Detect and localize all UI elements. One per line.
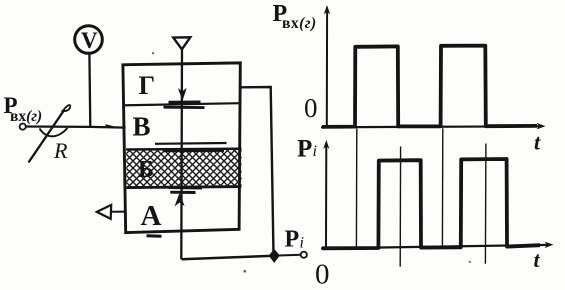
chart2 x-axis [321, 242, 554, 249]
wire central vertical [180, 49, 183, 259]
chart1 label Pвх(г) [273, 1, 317, 32]
wire right feedback [240, 87, 273, 255]
wire voltmeter lead [88, 54, 91, 127]
label Pi output [285, 227, 304, 253]
svg-text:вх(г): вх(г) [10, 108, 42, 125]
device box [123, 63, 240, 233]
node input terminal [20, 124, 26, 130]
wire output [279, 254, 301, 257]
svg-text:вх(г): вх(г) [282, 15, 317, 32]
node Pвх(г) input label [4, 93, 43, 125]
svg-text:R: R [53, 138, 68, 163]
wire timing line c [441, 128, 443, 247]
top inlet triangle [173, 37, 190, 49]
svg-text:Г: Г [139, 71, 156, 100]
chart1 y-axis [324, 5, 330, 127]
chart2 y-axis [323, 140, 329, 248]
chart2 square wave [322, 159, 540, 248]
svg-text:V: V [81, 28, 98, 53]
plates below Б [169, 186, 202, 190]
resistor R variable arrow [29, 105, 71, 163]
svg-text:P: P [297, 136, 312, 163]
wire input [26, 127, 126, 128]
svg-text:i: i [300, 235, 304, 252]
wire bottom [181, 256, 274, 259]
wire timing line d [484, 144, 487, 264]
stray dash below box [147, 234, 162, 238]
node Pi output terminal [301, 252, 307, 258]
svg-text:t: t [534, 247, 541, 272]
block Б hatched [126, 149, 241, 188]
svg-text:А: А [141, 200, 162, 232]
arrow up in А [176, 194, 184, 205]
arrow down in Г [179, 89, 186, 99]
svg-text:0: 0 [315, 259, 330, 290]
speck dots [152, 52, 154, 54]
wire timing line b [399, 147, 401, 267]
nozzle plates upper [169, 101, 201, 104]
svg-text:P: P [285, 227, 300, 253]
voltmeter V circle [75, 26, 103, 54]
chart1 x-axis [321, 123, 546, 130]
svg-text:В: В [133, 112, 151, 142]
junction diamond [269, 250, 279, 262]
chart1 square wave [322, 46, 537, 127]
exhaust arrow left [97, 205, 126, 219]
svg-text:i: i [313, 143, 317, 160]
svg-text:0: 0 [304, 93, 318, 123]
plate in В [155, 142, 227, 145]
svg-text:Б: Б [138, 157, 154, 183]
chart2 label Pi [297, 136, 317, 163]
svg-text:t: t [534, 130, 541, 155]
divider Г/В [124, 103, 240, 105]
wire timing line a [355, 129, 357, 248]
